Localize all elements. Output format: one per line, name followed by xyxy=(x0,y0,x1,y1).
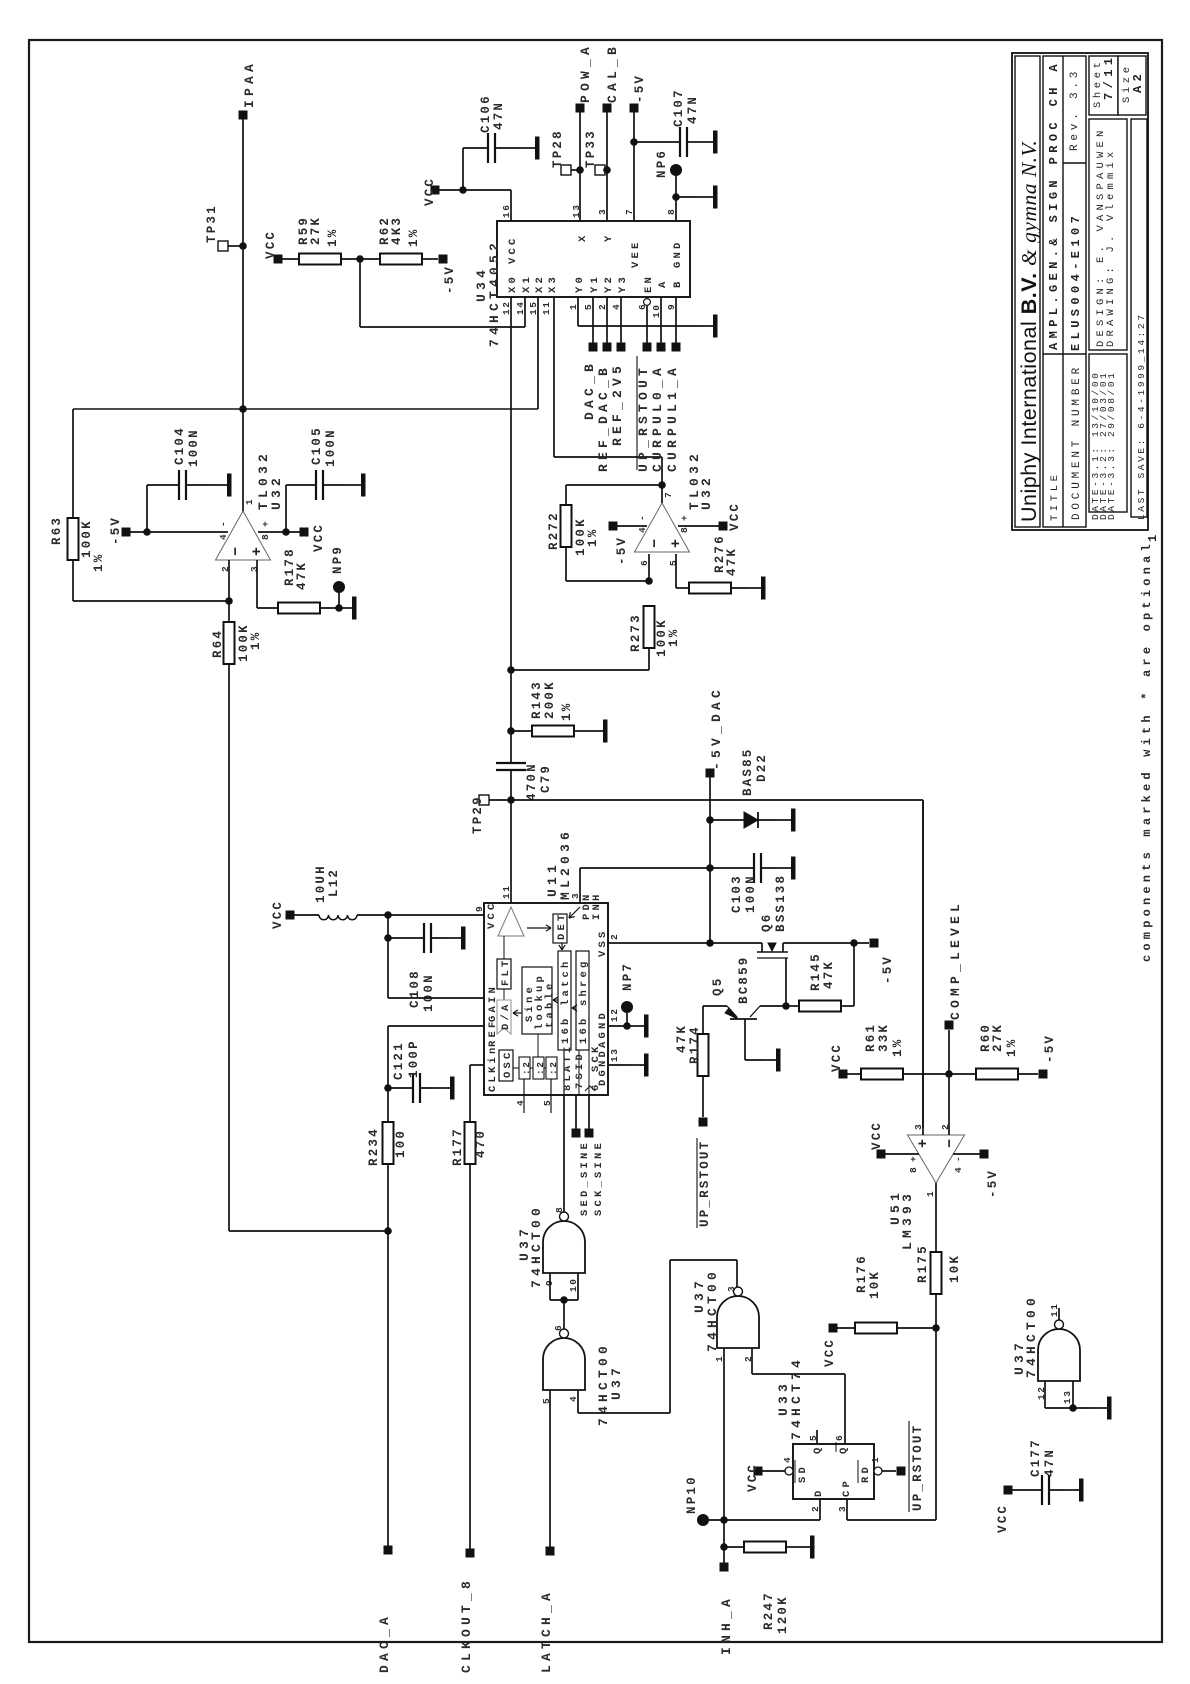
inductor L12 10UH xyxy=(286,911,295,920)
svg-text:1%: 1% xyxy=(326,228,340,247)
svg-text:-5V: -5V xyxy=(633,74,647,103)
svg-text:DOCUMENT NUMBER: DOCUMENT NUMBER xyxy=(1071,364,1083,520)
net SID_SINE terminal xyxy=(575,1095,577,1133)
svg-text:VCC: VCC xyxy=(312,523,326,552)
svg-text:47K: 47K xyxy=(725,547,739,576)
svg-text:4: 4 xyxy=(782,1456,793,1463)
power VCC op2 xyxy=(719,522,728,531)
resistor R175 xyxy=(931,1252,942,1294)
power -5V op1 xyxy=(122,528,131,537)
svg-text:6: 6 xyxy=(834,1434,845,1441)
ground at C104 xyxy=(214,484,227,486)
net CAL_B terminal pin3 xyxy=(603,104,612,113)
net IPAA terminal xyxy=(239,111,248,120)
svg-text:C107: C107 xyxy=(672,88,686,127)
ground DGND pin13 xyxy=(608,1064,631,1066)
svg-text:C177: C177 xyxy=(1029,1438,1043,1477)
wire gate3 pin1 down to NP10 node xyxy=(723,1348,725,1520)
svg-text:INH_A: INH_A xyxy=(719,1595,734,1655)
svg-text:NP6: NP6 xyxy=(655,149,669,178)
ground AGND pin12 with NP7 xyxy=(608,1025,631,1027)
power -5V op2 xyxy=(609,522,618,531)
ground at gate4 xyxy=(1094,1407,1107,1409)
svg-text:8: 8 xyxy=(260,533,271,540)
svg-text:A: A xyxy=(657,278,669,288)
ML2036 internal FLT block xyxy=(497,959,511,989)
wire op1 inverting input xyxy=(228,560,230,601)
svg-text:11: 11 xyxy=(501,884,512,899)
capacitor C107 xyxy=(634,141,680,143)
svg-text:DET: DET xyxy=(556,911,568,940)
wire op2 output node xyxy=(661,485,663,503)
resistor R59 xyxy=(282,258,299,260)
wire gate1 output to LATI xyxy=(563,1095,565,1212)
power -5V R62 xyxy=(439,255,448,264)
net DAC_B pin5 xyxy=(592,297,594,347)
wire divider to U34 X1 xyxy=(359,259,361,327)
svg-text:4: 4 xyxy=(218,533,229,540)
net LATCH_A terminal xyxy=(546,1547,555,1556)
svg-text:3: 3 xyxy=(249,565,260,572)
op-amp U32 first half xyxy=(216,511,271,560)
power VCC LM393 xyxy=(877,1150,886,1159)
ground at C103 xyxy=(778,867,791,869)
svg-text:BAS85: BAS85 xyxy=(741,747,755,796)
svg-text:FLT: FLT xyxy=(500,957,512,986)
svg-text:1%: 1% xyxy=(586,528,600,547)
svg-text:R143: R143 xyxy=(530,680,544,719)
node main output wire xyxy=(73,408,538,410)
svg-text:DATE-3.3: 29/08/01: DATE-3.3: 29/08/01 xyxy=(1106,371,1117,520)
flip-flop U33 74HCT74 xyxy=(793,1444,874,1499)
title block sheet size box xyxy=(1089,56,1118,115)
svg-text:Uniphy International B.V. &: Uniphy International B.V. & gymna N.V. xyxy=(1017,140,1041,522)
wire gate1 inputs tied xyxy=(549,1273,551,1300)
svg-text:C104: C104 xyxy=(173,426,187,465)
nand gate U37d pins 12 13 11 xyxy=(1038,1329,1080,1381)
svg-text:5: 5 xyxy=(668,559,679,566)
svg-text:-5V_DAC: -5V_DAC xyxy=(709,686,724,770)
svg-text:TP29: TP29 xyxy=(471,795,485,834)
svg-text:VCC: VCC xyxy=(823,1338,837,1367)
svg-text:12: 12 xyxy=(609,1007,620,1022)
net UP_RSTOUT at RD xyxy=(897,1467,906,1476)
resistor R273 xyxy=(644,606,655,648)
capacitor C104 xyxy=(146,485,148,532)
wire op2 inverting input xyxy=(648,554,650,581)
transistor Q5 BC859 xyxy=(730,1018,757,1020)
power -5V LM393 xyxy=(980,1150,989,1159)
net SCK_SINE terminal xyxy=(588,1095,590,1133)
svg-text:7/11: 7/11 xyxy=(1102,54,1116,100)
svg-text:NP7: NP7 xyxy=(621,962,635,991)
testpoint TP31 xyxy=(218,241,228,251)
net CURPUL1_A pin9 xyxy=(675,297,677,347)
svg-text:Y0: Y0 xyxy=(574,274,586,293)
svg-text:IPAA: IPAA xyxy=(242,60,257,108)
svg-text:C103: C103 xyxy=(730,874,744,913)
wire op2 non-inverting input xyxy=(675,554,677,588)
wire gate1 to gate2 output xyxy=(563,1300,565,1329)
wire PDN/INH pin3 xyxy=(579,868,581,903)
ML2036 internal DET block xyxy=(553,914,567,943)
svg-text:4: 4 xyxy=(515,1099,526,1106)
svg-text:D22: D22 xyxy=(755,753,769,782)
wire gate4 inputs to ground xyxy=(1044,1381,1046,1408)
svg-text:DRAWING: J. Vlemmix: DRAWING: J. Vlemmix xyxy=(1105,147,1117,347)
ML2036 internal sine lookup table xyxy=(522,967,552,1034)
pin D xyxy=(819,1499,821,1520)
wire gate3 pin2 to U33 Qbar xyxy=(751,1348,753,1374)
net UP_RSTOUT at R174 xyxy=(699,1118,708,1127)
svg-text:R273: R273 xyxy=(629,613,643,652)
svg-text:U32: U32 xyxy=(269,474,284,510)
svg-text:VCC: VCC xyxy=(271,900,285,929)
svg-text:13: 13 xyxy=(1062,1389,1073,1404)
ground at Q5 base xyxy=(763,1059,776,1061)
power VCC R59 xyxy=(274,255,283,264)
svg-text:L12: L12 xyxy=(327,868,341,897)
svg-text:200K: 200K xyxy=(543,680,557,719)
title block outer xyxy=(1012,53,1148,530)
svg-text:X3: X3 xyxy=(547,274,559,293)
svg-text:-5V: -5V xyxy=(615,536,629,565)
svg-text:REF_2V5: REF_2V5 xyxy=(610,362,625,446)
svg-text:DAC_A: DAC_A xyxy=(377,1613,392,1673)
svg-text:VEE: VEE xyxy=(630,239,642,268)
svg-text:R174: R174 xyxy=(688,1025,702,1064)
wire X2 pin15 to main node xyxy=(537,297,539,409)
wire CLKin pin16 xyxy=(470,1064,484,1066)
resistor R174 xyxy=(702,1006,704,1034)
svg-text:SED_SINE: SED_SINE xyxy=(579,1140,591,1216)
svg-text:X0: X0 xyxy=(507,274,519,293)
svg-text:REF_DAC_B: REF_DAC_B xyxy=(596,364,611,472)
net COMP_LEVEL xyxy=(945,1021,954,1030)
wire op1 output to node xyxy=(242,409,244,511)
svg-text:RD: RD xyxy=(860,1464,872,1483)
svg-text:R61: R61 xyxy=(864,1023,878,1052)
svg-text:−: − xyxy=(942,1137,959,1148)
svg-text:47K: 47K xyxy=(822,960,836,989)
title block date box xyxy=(1089,354,1127,512)
svg-text:CP: CP xyxy=(841,1478,853,1497)
title block design box xyxy=(1089,119,1127,350)
svg-text:1: 1 xyxy=(925,1190,936,1197)
svg-text:100: 100 xyxy=(394,1129,408,1158)
svg-text:+: + xyxy=(668,537,685,548)
pin Q stub xyxy=(816,1430,818,1444)
svg-text:SD: SD xyxy=(797,1464,809,1483)
svg-text:UP_RSTOUT: UP_RSTOUT xyxy=(698,1140,712,1227)
svg-text:-5V: -5V xyxy=(109,516,123,545)
svg-text:Y1: Y1 xyxy=(589,274,601,293)
wire LM393 output xyxy=(935,1183,937,1252)
resistor R177 xyxy=(465,1122,476,1164)
pin 6 EN bubble xyxy=(644,299,651,306)
svg-text:Q: Q xyxy=(838,1444,850,1454)
svg-text:D: D xyxy=(813,1487,825,1497)
ground at R178 xyxy=(339,607,352,609)
ground at Y0 xyxy=(700,325,713,327)
svg-text:1: 1 xyxy=(870,1456,881,1463)
svg-text:BC859: BC859 xyxy=(737,955,751,1004)
svg-text:R234: R234 xyxy=(367,1127,381,1166)
svg-text:AGND: AGND xyxy=(597,1010,609,1048)
svg-text:LM393: LM393 xyxy=(900,1190,915,1250)
svg-text:47N: 47N xyxy=(1043,1448,1057,1477)
svg-text:1: 1 xyxy=(244,498,255,505)
svg-text:100N: 100N xyxy=(187,428,201,467)
svg-text:R145: R145 xyxy=(809,952,823,991)
svg-text:R177: R177 xyxy=(451,1127,465,1166)
ML2036 internal 16b shreg xyxy=(576,951,589,1050)
svg-text:-: - xyxy=(637,514,648,521)
svg-text:CLKin: CLKin xyxy=(487,1044,499,1092)
svg-text:27K: 27K xyxy=(309,216,323,245)
svg-text:EN: EN xyxy=(643,274,655,293)
svg-text:1%: 1% xyxy=(560,702,574,721)
svg-text:components marked with * are o: components marked with * are optional xyxy=(1140,540,1154,962)
wire GND pin8 and NP6 xyxy=(675,176,677,221)
net DAC_A terminal xyxy=(384,1546,393,1555)
ground at U34 GND xyxy=(700,196,713,198)
svg-text:VCC: VCC xyxy=(728,502,742,531)
svg-text:X1: X1 xyxy=(521,274,533,293)
resistor R64 xyxy=(228,601,230,622)
ML2036 internal amplifier xyxy=(498,907,524,936)
svg-text:10K: 10K xyxy=(868,1270,882,1299)
svg-text:8: 8 xyxy=(908,1166,919,1173)
diode D22 BAS85 xyxy=(710,819,744,821)
svg-text:C106: C106 xyxy=(479,94,493,133)
resistor R62 xyxy=(380,254,422,265)
svg-text:8LATI: 8LATI xyxy=(562,1043,574,1091)
svg-text:2: 2 xyxy=(810,1505,821,1512)
svg-text:−: − xyxy=(647,537,664,548)
svg-text:33K: 33K xyxy=(877,1023,891,1052)
svg-text:10K: 10K xyxy=(948,1254,962,1283)
net REF_DAC_B pin2 xyxy=(606,297,608,347)
analog mux U34 74HCT4052 xyxy=(497,221,690,297)
svg-text:VCC: VCC xyxy=(486,900,498,929)
svg-text:4: 4 xyxy=(953,1166,964,1173)
ground at R276 xyxy=(748,587,761,589)
ML2036 internal 16b latch xyxy=(558,951,571,1050)
wire gate4 output stub pin11 xyxy=(1058,1308,1060,1320)
wire LATCH_A to gate2 pin5 xyxy=(549,1390,551,1551)
wire Y0 pin1 to ground xyxy=(577,297,579,326)
nand gate U37c pins 1 2 3 xyxy=(717,1296,759,1348)
wire plus input from sine line xyxy=(922,800,924,1135)
svg-text:+: + xyxy=(915,1137,932,1148)
svg-text:47N: 47N xyxy=(492,101,506,130)
svg-text:3: 3 xyxy=(726,1285,737,1292)
svg-text:5: 5 xyxy=(808,1434,819,1441)
ground at C107 xyxy=(700,141,713,143)
resistor R145 xyxy=(786,1005,799,1007)
svg-text:VCC: VCC xyxy=(423,177,437,206)
svg-text:R272: R272 xyxy=(547,511,561,550)
svg-text:BSS138: BSS138 xyxy=(774,874,788,932)
svg-text:Q: Q xyxy=(812,1444,824,1454)
ML2036 internal D/A block xyxy=(503,989,505,1000)
svg-text:A2: A2 xyxy=(1131,70,1145,93)
pin RD with bubble xyxy=(874,1467,882,1475)
svg-text:11: 11 xyxy=(541,300,552,315)
wire sine output line xyxy=(511,799,923,801)
svg-text:100N: 100N xyxy=(744,874,758,913)
wire VOUT pin11 xyxy=(510,800,512,903)
svg-text:-5V: -5V xyxy=(443,265,457,294)
resistor R178 xyxy=(256,560,258,608)
svg-text:470N: 470N xyxy=(525,762,539,801)
ground at C105 xyxy=(348,484,361,486)
comparator U51 LM393 xyxy=(908,1135,965,1183)
wire R64 to DAC node xyxy=(229,1230,388,1232)
svg-text:100K: 100K xyxy=(80,519,94,558)
ML2036 SID SCK internal xyxy=(578,1050,580,1095)
svg-text:−: − xyxy=(228,545,245,556)
svg-text:1%: 1% xyxy=(667,628,681,647)
svg-text:VCC: VCC xyxy=(746,1463,760,1492)
svg-text:6: 6 xyxy=(553,1324,564,1331)
power -5V VEE pin7 xyxy=(630,104,639,113)
svg-text:AMPL.GEN.& SIGN PROC CH A: AMPL.GEN.& SIGN PROC CH A xyxy=(1047,60,1061,350)
svg-text:1%: 1% xyxy=(1005,1038,1019,1057)
testpoint TP28 xyxy=(561,165,571,175)
ground at C177 xyxy=(1066,1489,1079,1491)
svg-text:VCC: VCC xyxy=(830,1043,844,1072)
svg-text:LATCH_A: LATCH_A xyxy=(539,1589,554,1673)
sine generator U11 ML2036 xyxy=(484,903,608,1095)
svg-text:470: 470 xyxy=(474,1129,488,1158)
wire VSS to -5V xyxy=(783,942,869,944)
svg-text:B: B xyxy=(672,278,684,288)
nand gate U37b pins 5 4 6 xyxy=(543,1338,585,1390)
svg-text:X: X xyxy=(577,232,589,242)
wire VCC to pin9 xyxy=(357,914,484,916)
capacitor C121 xyxy=(388,1087,413,1089)
svg-text:5: 5 xyxy=(542,1099,553,1106)
title block last save box xyxy=(1131,119,1147,517)
svg-text:table: table xyxy=(544,980,556,1028)
svg-text:GAIN: GAIN xyxy=(487,984,499,1022)
resistor R247 xyxy=(724,1546,744,1548)
svg-text:D/A: D/A xyxy=(500,1001,512,1030)
svg-text:74HCT4052: 74HCT4052 xyxy=(487,239,502,347)
mosfet Q6 BSS138 xyxy=(761,943,763,952)
svg-text:27K: 27K xyxy=(991,1023,1005,1052)
testpoint NP10 and node xyxy=(697,1514,709,1526)
capacitor C105 xyxy=(285,485,287,532)
svg-text:U32: U32 xyxy=(699,474,714,510)
svg-text:UP_RSTOUT: UP_RSTOUT xyxy=(636,364,651,472)
svg-text:+: + xyxy=(908,1155,919,1162)
net POW_A terminal pin13 xyxy=(576,104,585,113)
svg-text:Y: Y xyxy=(603,232,615,242)
net REF_2V5 pin4 xyxy=(620,297,622,347)
svg-text:1%: 1% xyxy=(92,553,106,572)
ground at C106 xyxy=(522,147,535,149)
svg-text:3: 3 xyxy=(570,892,581,899)
ground at R143 xyxy=(590,730,603,732)
svg-text:NP10: NP10 xyxy=(685,1475,699,1514)
svg-text:47K: 47K xyxy=(675,1024,689,1053)
ML2036 xtal pins 4 5 xyxy=(523,1079,525,1113)
ground at R247 xyxy=(797,1546,810,1548)
ML2036 internal OSC block xyxy=(499,1050,513,1081)
title block title row box xyxy=(1043,56,1086,527)
svg-text:R176: R176 xyxy=(855,1254,869,1293)
capacitor C106 xyxy=(462,148,464,190)
ML2036 LATI pin8 wire xyxy=(563,1050,565,1095)
net INH_A terminal xyxy=(720,1563,729,1572)
resistor R61 xyxy=(839,1070,848,1079)
capacitor C177 xyxy=(1004,1486,1013,1495)
resistor R272 feedback xyxy=(565,485,567,505)
wire X3 pin11 to op2 output xyxy=(553,297,555,457)
svg-text:OSC: OSC xyxy=(502,1049,514,1078)
svg-text:14: 14 xyxy=(515,300,526,315)
svg-text:9: 9 xyxy=(474,905,485,912)
svg-text:+: + xyxy=(260,520,271,527)
svg-text:120K: 120K xyxy=(776,1595,790,1634)
svg-text:R63: R63 xyxy=(50,516,64,545)
resistor R143 xyxy=(511,730,532,732)
svg-text:R175: R175 xyxy=(916,1244,930,1283)
resistor R234 xyxy=(387,1088,389,1122)
svg-text:ML2036: ML2036 xyxy=(558,828,573,900)
svg-text:100P: 100P xyxy=(407,1039,421,1078)
svg-text:-: - xyxy=(953,1155,964,1162)
svg-text:CURPUL0_A: CURPUL0_A xyxy=(650,364,665,472)
svg-text:VCC: VCC xyxy=(996,1504,1010,1533)
svg-text:C79: C79 xyxy=(539,764,553,793)
svg-text:LAST SAVE: 6-4-1999_14:27: LAST SAVE: 6-4-1999_14:27 xyxy=(1136,312,1147,520)
svg-text:TP28: TP28 xyxy=(551,129,565,168)
nand gate U37a pins 9 10 8 xyxy=(543,1221,585,1273)
ground at C108 xyxy=(448,937,461,939)
svg-text:R247: R247 xyxy=(762,1591,776,1630)
resistor R63 xyxy=(72,409,74,518)
wire VSS pin2 xyxy=(608,942,762,944)
wire gate2 pin4 from gate3 output xyxy=(577,1390,579,1413)
svg-text:CLKOUT_8: CLKOUT_8 xyxy=(459,1577,474,1673)
capacitor C108 xyxy=(387,915,389,938)
ground at C121 xyxy=(437,1087,450,1089)
wire REF pin10 xyxy=(388,1025,484,1027)
svg-text:74HCT00: 74HCT00 xyxy=(1024,1294,1039,1378)
svg-text:74HCT00: 74HCT00 xyxy=(705,1268,720,1352)
svg-text:+: + xyxy=(679,514,690,521)
op-amp U32 second half xyxy=(635,503,690,552)
pin SD with bubble and VCC xyxy=(785,1467,793,1475)
pin CP xyxy=(846,1499,848,1520)
resistor R176 xyxy=(829,1324,838,1333)
net CURPUL0_A pin10 xyxy=(660,297,662,347)
svg-text:-5V: -5V xyxy=(881,955,895,984)
svg-text:4K3: 4K3 xyxy=(390,216,404,245)
svg-text:Y2: Y2 xyxy=(603,274,615,293)
svg-text:CURPUL1_A: CURPUL1_A xyxy=(665,364,680,472)
svg-text:-5V: -5V xyxy=(1043,1034,1057,1063)
svg-text:U37: U37 xyxy=(609,1364,624,1400)
svg-text:R64: R64 xyxy=(211,629,225,658)
svg-text:47K: 47K xyxy=(295,561,309,590)
svg-text:GND: GND xyxy=(672,239,684,268)
wire to INH_A xyxy=(723,1520,725,1567)
